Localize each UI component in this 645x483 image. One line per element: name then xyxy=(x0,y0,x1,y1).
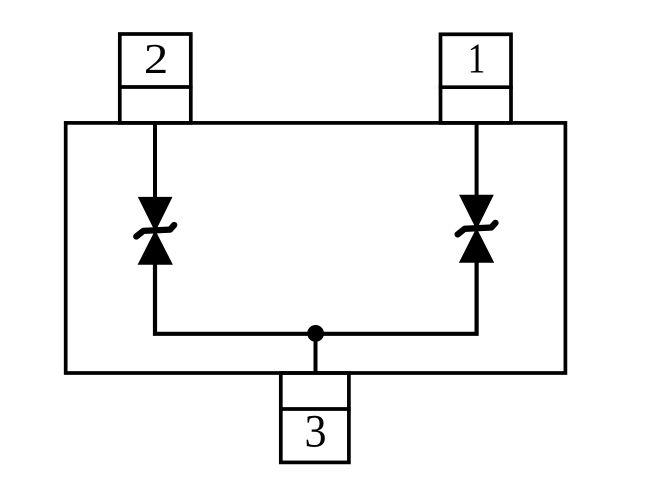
D1 lower triangle xyxy=(460,229,494,262)
package body outline xyxy=(66,123,566,373)
svg-text:3: 3 xyxy=(304,406,326,457)
wire pin 1 to diode D1 xyxy=(475,121,479,197)
wire common bus D2 to D1 xyxy=(155,260,477,334)
pin 1 terminal divider xyxy=(439,85,513,89)
svg-text:2: 2 xyxy=(144,35,168,82)
wire pin 2 to diode D2 xyxy=(153,121,157,199)
D2 lower triangle xyxy=(138,231,172,264)
junction node dot xyxy=(307,325,324,342)
pin 2 terminal divider xyxy=(118,85,193,89)
D2 zener bar xyxy=(136,225,174,237)
D1 zener bar xyxy=(458,223,496,235)
bidirectional TVS diode D1 (pin 1 branch) xyxy=(458,195,496,262)
bidirectional TVS diode D2 (pin 2 branch) xyxy=(136,197,174,264)
pin 2 terminal box xyxy=(120,34,191,123)
pin 1 terminal box xyxy=(441,34,512,123)
D1 upper triangle xyxy=(460,195,493,228)
pin 3 terminal divider xyxy=(279,407,351,411)
D2 upper triangle xyxy=(139,197,172,230)
pin 3 terminal box xyxy=(281,373,349,462)
wire junction to pin 3 xyxy=(314,333,318,372)
svg-text:1: 1 xyxy=(468,36,486,83)
